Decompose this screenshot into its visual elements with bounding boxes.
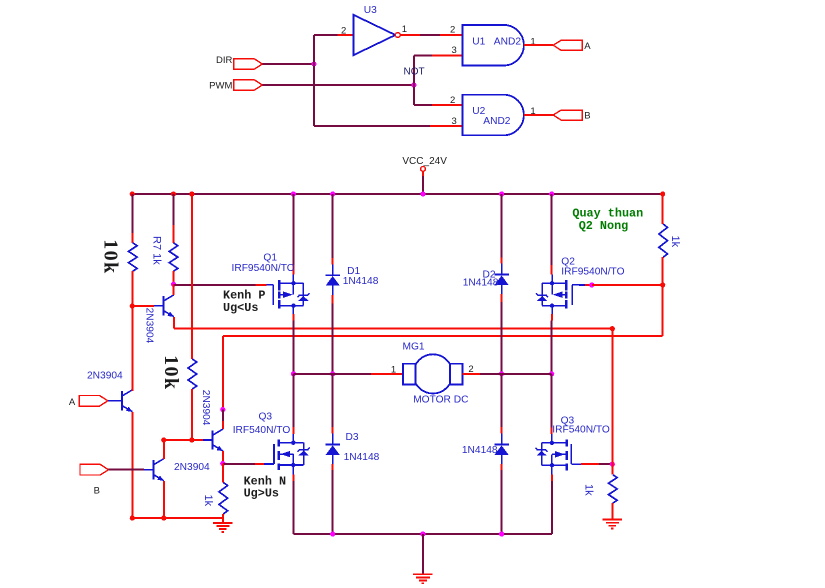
- wire 1k right-bottom lead: [611, 503, 613, 519]
- svg-text:A: A: [69, 397, 76, 408]
- junction rail D2 leg: [499, 191, 504, 196]
- wire Q3L source down: [292, 475, 294, 535]
- wire base Q5: [132, 305, 154, 307]
- and-gate U2 AND2: [463, 95, 524, 136]
- svg-text:1N4148: 1N4148: [343, 276, 379, 287]
- junction left base node: [130, 303, 135, 308]
- wire emitter Q6 down: [131, 412, 133, 518]
- power VCC_24V symbol: [402, 156, 447, 194]
- svg-text:1k: 1k: [669, 236, 681, 248]
- svg-text:U1 AND2: U1 AND2: [472, 36, 521, 47]
- junction base wire left end: [161, 437, 166, 442]
- label Kenh N: [244, 474, 286, 500]
- wire 1k right-top bottom: [662, 257, 664, 285]
- wire collector Q6 up: [131, 389, 133, 392]
- wire D4 down from motor node: [501, 374, 503, 434]
- wire emitter Q5 down: [173, 317, 175, 329]
- svg-text:MOTOR DC: MOTOR DC: [413, 395, 468, 406]
- label R7 1k: [150, 236, 162, 265]
- ground right-bottom: [603, 520, 622, 529]
- wire Q2 drain from rail: [551, 194, 553, 275]
- wire PWM vertical: [413, 55, 415, 104]
- wire Q3R gate wire: [581, 463, 612, 465]
- wire PWM to U2 pin2: [414, 104, 463, 106]
- svg-text:1N4148: 1N4148: [462, 445, 498, 456]
- svg-text:B: B: [584, 111, 590, 122]
- svg-text:2: 2: [341, 25, 346, 36]
- wire left leg lower: [131, 306, 133, 390]
- junction rail VCC: [420, 191, 425, 196]
- diode D2 1N4148: [494, 264, 508, 295]
- svg-text:IRF540N/TO: IRF540N/TO: [233, 425, 291, 436]
- junction rail x192: [189, 191, 194, 196]
- label Q1 value IRF9540N/TO: [232, 263, 295, 274]
- svg-text:2N3904: 2N3904: [87, 370, 123, 381]
- junction rail Q2 leg: [549, 191, 554, 196]
- wire VCC rail: [132, 193, 662, 195]
- wire Q2 gate to 1k leg: [592, 284, 663, 286]
- svg-text:IRF540N/TO: IRF540N/TO: [552, 424, 610, 435]
- wire gate Q3L horizontal: [223, 463, 264, 465]
- wire R7 bottom: [173, 271, 175, 284]
- wire gate Q1 horizontal: [174, 284, 267, 286]
- transistor Q3 IRF540N N-MOSFET left: [264, 434, 310, 475]
- label D2: [483, 270, 496, 281]
- wire PWM to junction: [262, 84, 414, 86]
- label 2N3904 Q6: [87, 370, 123, 381]
- svg-text:3: 3: [452, 116, 457, 127]
- wire PWM to U1 pin3: [414, 54, 463, 56]
- svg-text:VCC_24V: VCC_24V: [402, 156, 447, 167]
- wire bottom bridge rail: [293, 533, 552, 535]
- label D1: [347, 266, 360, 277]
- wire D3 down from motor node: [332, 374, 334, 434]
- label D4 value 1N4148: [462, 445, 498, 456]
- wire U3 output to U1 pin2: [400, 34, 462, 36]
- wire left leg mid: [131, 271, 133, 306]
- svg-text:2N3904: 2N3904: [174, 462, 210, 473]
- pin 1 label U1: [530, 36, 535, 47]
- junction Q3L gate node: [220, 461, 225, 466]
- label 2N3904 Q7: [200, 390, 211, 426]
- label Q2: [561, 256, 575, 267]
- pin 2 label U3: [341, 25, 346, 36]
- node B input port: [80, 464, 109, 496]
- resistor R7 1k: [169, 243, 178, 271]
- transistor Q6 2N3904 A input: [108, 390, 132, 412]
- resistor 10k left: [129, 243, 138, 271]
- label Kenh P: [223, 288, 265, 315]
- label 10k mid: [160, 355, 182, 390]
- op-amp U3 NOT inverter: [353, 5, 400, 55]
- svg-text:3: 3: [452, 45, 457, 56]
- wire emitter Q7 down: [222, 451, 224, 464]
- node PWM input port: [209, 80, 262, 92]
- pin 3 label U2: [452, 116, 457, 127]
- wire Q3R drain: [551, 374, 553, 434]
- label 1k left-bottom: [202, 495, 214, 507]
- pin 1 label MG1: [391, 365, 396, 376]
- wire D1 from rail: [332, 194, 334, 264]
- junction bottom-left a: [130, 516, 135, 521]
- junction bottom D3: [330, 531, 335, 536]
- junction D1 motor node: [330, 371, 335, 376]
- wire Q2 source down: [551, 314, 553, 374]
- label D3: [346, 432, 359, 443]
- label 2N3904 Q5: [143, 308, 154, 344]
- svg-text:Ug<Us: Ug<Us: [223, 301, 258, 315]
- wire collector Q8 up: [163, 440, 165, 459]
- resistor 1k right-bottom: [609, 475, 618, 504]
- svg-text:10k: 10k: [100, 239, 122, 274]
- junction rail right end: [660, 191, 665, 196]
- transistor Q1 IRF9540N P-MOSFET: [266, 275, 309, 315]
- junction rail D1 leg: [330, 191, 335, 196]
- diode D3 1N4148: [326, 434, 340, 465]
- transistor Q8 2N3904 B input: [144, 459, 164, 481]
- svg-text:B: B: [94, 485, 100, 496]
- svg-text:2: 2: [450, 95, 455, 106]
- wire D1 down: [332, 295, 334, 374]
- wire x223 vertical upper: [222, 336, 224, 410]
- wire U1 output: [524, 44, 553, 46]
- svg-text:Ug>Us: Ug>Us: [244, 487, 279, 501]
- resistor 1k right-top: [659, 224, 668, 257]
- junction Q2 motor node: [549, 371, 554, 376]
- junction bottom D4: [499, 531, 504, 536]
- wire D2 down: [501, 294, 503, 374]
- pin 3 label U1: [452, 45, 457, 56]
- svg-text:D3: D3: [346, 432, 359, 443]
- transistor Q5 2N3904 Kenh P driver: [154, 295, 174, 317]
- junction wire A right end: [610, 326, 615, 331]
- svg-text:IRF9540N/TO: IRF9540N/TO: [561, 267, 624, 278]
- wire D3 down: [332, 464, 334, 534]
- label NOT: [404, 66, 425, 77]
- resistor 10k mid: [188, 359, 197, 389]
- label 1k right-bottom: [583, 484, 595, 496]
- label Q1: [263, 252, 277, 263]
- wire B to base Q8: [109, 469, 144, 471]
- node A input port: [69, 396, 108, 408]
- junction Q1 motor node: [291, 371, 296, 376]
- wire Q3L drain: [292, 374, 294, 434]
- wire motor left: [293, 373, 403, 375]
- svg-text:Q1: Q1: [263, 252, 277, 263]
- svg-text:Q2 Nong: Q2 Nong: [579, 219, 629, 233]
- svg-text:A: A: [584, 41, 591, 52]
- svg-text:2N3904: 2N3904: [143, 308, 154, 344]
- label Q2 value IRF9540N/TO: [561, 267, 624, 278]
- svg-text:1N4148: 1N4148: [344, 452, 380, 463]
- junction rail Q1 leg: [291, 191, 296, 196]
- junction rail x132: [130, 191, 135, 196]
- transistor Q2 IRF9540N P-MOSFET mirrored: [536, 275, 579, 315]
- wire bottom-left rail: [132, 517, 223, 519]
- svg-text:2: 2: [450, 24, 455, 35]
- wire Q1 drain from rail: [292, 194, 294, 275]
- svg-text:NOT: NOT: [404, 66, 425, 77]
- pin 2 label MG1: [468, 364, 473, 375]
- svg-text:AND2: AND2: [483, 116, 511, 127]
- wire DIR to U2 pin3: [314, 125, 463, 127]
- transistor Q3 IRF540N N-MOSFET right: [536, 434, 582, 475]
- diode D1 1N4148: [326, 264, 340, 295]
- motor MG1 MOTOR DC: [403, 342, 469, 406]
- node A output port: [553, 40, 591, 52]
- wire x223 to Q7 collector: [222, 410, 224, 429]
- junction PWM node: [411, 82, 416, 87]
- label 1k right-top: [669, 236, 681, 248]
- wire A cross (emitter to Q3R gate): [174, 328, 613, 330]
- junction mid leg base wire: [189, 437, 194, 442]
- junction x223 collector node: [220, 407, 225, 412]
- label Q3 right: [561, 416, 575, 427]
- svg-text:1: 1: [391, 365, 396, 376]
- svg-text:MG1: MG1: [403, 342, 425, 353]
- pin 1 label U3: [402, 24, 407, 35]
- node B output port: [553, 110, 590, 122]
- wire emitter Q8 down: [163, 481, 165, 518]
- label Q3 left: [259, 412, 273, 423]
- wire motor right: [463, 373, 552, 375]
- pin 1 label U2: [530, 106, 535, 117]
- wire B cross (to Q2 gate leg): [223, 335, 663, 337]
- svg-text:PWM: PWM: [209, 81, 232, 92]
- svg-text:10k: 10k: [160, 355, 182, 390]
- label Q3 left value IRF540N/TO: [233, 425, 291, 436]
- wire mid leg lower: [191, 389, 193, 440]
- label Quay thuan: [572, 207, 643, 233]
- wire mid leg upper: [191, 194, 193, 359]
- wire R7 leg upper: [173, 194, 175, 243]
- junction bottom-left b: [161, 516, 166, 521]
- svg-text:1: 1: [402, 24, 407, 35]
- svg-text:DIR: DIR: [216, 55, 233, 66]
- wire left leg upper: [131, 194, 133, 243]
- junction R7 gate node: [171, 282, 176, 287]
- wire 1k right-top from rail: [662, 194, 664, 224]
- svg-text:R7 1k: R7 1k: [150, 236, 162, 265]
- wire center ground stem: [422, 534, 424, 574]
- junction DIR node: [311, 61, 316, 66]
- svg-text:Q3: Q3: [259, 412, 273, 423]
- junction Q3R gate node: [610, 462, 615, 467]
- junction 1k right leg gate: [660, 282, 665, 287]
- junction rail x173: [171, 191, 176, 196]
- diode D4 1N4148: [494, 434, 508, 465]
- pin 2 label U1: [450, 24, 455, 35]
- ground left-bottom: [213, 523, 232, 532]
- wire 1k left top: [222, 464, 224, 483]
- wire D2 from rail: [501, 194, 503, 264]
- junction Q2 gate node: [589, 282, 594, 287]
- junction D2 motor node: [499, 371, 504, 376]
- pin 2 label U2: [450, 95, 455, 106]
- svg-text:1N4148: 1N4148: [463, 278, 499, 289]
- label 10k left: [100, 239, 122, 274]
- junction bottom ground: [420, 531, 425, 536]
- resistor 1k left-bottom: [219, 482, 228, 514]
- svg-text:2N3904: 2N3904: [200, 390, 211, 426]
- label 2N3904 Q8: [174, 462, 210, 473]
- node DIR input port: [216, 55, 262, 69]
- label D3 value 1N4148: [344, 452, 380, 463]
- wire x612 vertical: [611, 329, 613, 465]
- wire DIR to junction: [262, 63, 314, 65]
- svg-text:IRF9540N/TO: IRF9540N/TO: [232, 263, 295, 274]
- wire 1k left bottom lead: [222, 514, 224, 523]
- svg-text:1k: 1k: [202, 495, 214, 507]
- wire U2 output: [524, 114, 553, 116]
- transistor Q7 2N3904 Kenh N driver: [203, 429, 223, 451]
- and-gate U1 AND2: [463, 25, 524, 66]
- wire DIR vertical: [313, 35, 315, 126]
- wire D4 down: [501, 464, 503, 534]
- label D1 value 1N4148: [343, 276, 379, 287]
- svg-text:1k: 1k: [583, 484, 595, 496]
- ground center-bottom: [413, 574, 432, 583]
- label Q3 right value IRF540N/TO: [552, 424, 610, 435]
- wire Q2 gate to right leg: [579, 284, 592, 286]
- svg-text:U3: U3: [364, 5, 377, 16]
- wire Q1 source down: [292, 314, 294, 374]
- wire base Q7: [164, 439, 203, 441]
- wire Q3R source down: [551, 475, 553, 534]
- wire collector Q5: [173, 284, 175, 295]
- wire DIR to U3 input: [314, 34, 353, 36]
- wire right leg down to B cross: [662, 285, 664, 336]
- wire x612 to 1k: [611, 464, 613, 475]
- label D2 value 1N4148: [463, 278, 499, 289]
